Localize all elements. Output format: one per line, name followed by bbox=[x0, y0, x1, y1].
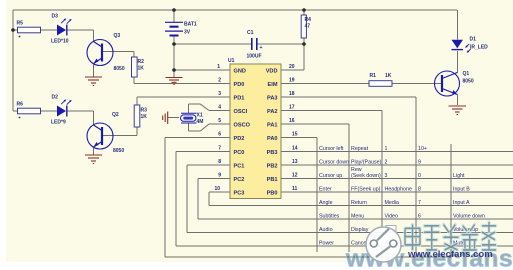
junction node BAT1 top bbox=[172, 8, 176, 12]
svg-text:Enter: Enter bbox=[319, 187, 332, 193]
svg-text:PD2: PD2 bbox=[234, 136, 245, 142]
wire Q2 base to R3 bbox=[103, 127, 137, 136]
svg-text:Q3: Q3 bbox=[114, 33, 121, 39]
svg-text:12: 12 bbox=[292, 173, 298, 179]
node key matrix labels row2 bbox=[319, 160, 421, 166]
wire OSCO pin5 to crystal bbox=[189, 124, 230, 131]
svg-text:LED*10: LED*10 bbox=[51, 39, 69, 45]
node key matrix labels row4 bbox=[319, 187, 470, 193]
wire PD2 pin6 wrap to column5 bbox=[165, 138, 451, 258]
svg-text:10+: 10+ bbox=[418, 146, 427, 152]
svg-text:3V: 3V bbox=[184, 30, 191, 36]
svg-text:1K: 1K bbox=[138, 66, 145, 72]
junction node R5-left bbox=[11, 28, 15, 32]
LED D1 bbox=[452, 37, 489, 53]
svg-text:1: 1 bbox=[217, 64, 220, 70]
wire battery top bbox=[173, 10, 175, 22]
svg-text:PB1: PB1 bbox=[267, 177, 278, 183]
svg-text:PC2: PC2 bbox=[234, 177, 245, 183]
wire PC1 pin8 wrap to row7 bbox=[187, 165, 513, 233]
watermark badge bbox=[366, 226, 401, 263]
wire Q3 emitter to ground bbox=[93, 64, 95, 77]
svg-text:Input B: Input B bbox=[453, 187, 470, 193]
svg-text:U1: U1 bbox=[228, 58, 235, 64]
svg-text:5: 5 bbox=[218, 118, 221, 124]
wire PD1 net bbox=[137, 97, 230, 105]
svg-text:Cursor up: Cursor up bbox=[319, 173, 342, 179]
svg-text:Video: Video bbox=[385, 214, 399, 220]
node key matrix labels row1 bbox=[319, 146, 427, 152]
ground under Q1 bbox=[449, 106, 467, 115]
svg-text:+: + bbox=[260, 45, 263, 51]
svg-text:13: 13 bbox=[292, 159, 298, 165]
svg-text:R4: R4 bbox=[305, 17, 312, 23]
svg-text:PA0: PA0 bbox=[267, 136, 277, 142]
svg-text:1K: 1K bbox=[141, 114, 148, 120]
transistor Q1 bbox=[435, 71, 474, 96]
svg-text:FF(Seek up): FF(Seek up) bbox=[351, 187, 381, 193]
wire PB0 pin11 row4 bbox=[281, 191, 513, 193]
wire Q2 emitter to ground bbox=[93, 148, 95, 155]
svg-text:9: 9 bbox=[418, 160, 421, 166]
svg-text:Input A: Input A bbox=[453, 200, 470, 206]
LED D2 bbox=[51, 95, 72, 126]
svg-text:7: 7 bbox=[218, 146, 221, 152]
svg-text:PB2: PB2 bbox=[267, 163, 278, 169]
wire PB1 pin12 row3 bbox=[281, 178, 513, 180]
wire PB3 pin14 row1 bbox=[281, 151, 513, 153]
wire R4 stubs bbox=[303, 10, 305, 44]
wire PD0 net bbox=[134, 77, 230, 84]
node key matrix labels row5 bbox=[319, 200, 470, 206]
svg-text:Volume down: Volume down bbox=[453, 214, 485, 220]
svg-text:20: 20 bbox=[289, 64, 295, 70]
svg-text:OSCI: OSCI bbox=[234, 109, 248, 115]
resistor R1 bbox=[369, 73, 392, 86]
svg-text:R5: R5 bbox=[17, 21, 24, 27]
svg-text:(Seek down): (Seek down) bbox=[351, 173, 381, 179]
svg-text:2: 2 bbox=[385, 160, 388, 166]
svg-text:18: 18 bbox=[289, 91, 295, 97]
svg-text:47: 47 bbox=[305, 24, 311, 30]
svg-text:Angle: Angle bbox=[319, 200, 333, 206]
svg-text:6: 6 bbox=[418, 214, 421, 220]
svg-text:8: 8 bbox=[418, 187, 421, 193]
wire crystal ground stub bbox=[168, 117, 179, 119]
svg-text:10: 10 bbox=[214, 186, 220, 192]
junction node GND rail bbox=[172, 68, 176, 72]
capacitor C1 bbox=[247, 30, 263, 60]
wire GND pin1 bbox=[174, 70, 230, 77]
ground under BAT1 bbox=[166, 78, 183, 85]
svg-text:PC3: PC3 bbox=[234, 190, 245, 196]
svg-text:Q2: Q2 bbox=[112, 112, 119, 118]
wire D1 to Q1 collector bbox=[456, 51, 458, 73]
svg-text:PD0: PD0 bbox=[234, 82, 245, 88]
svg-text:PA2: PA2 bbox=[267, 109, 277, 115]
svg-text:0: 0 bbox=[418, 173, 421, 179]
svg-text:4: 4 bbox=[218, 105, 221, 111]
svg-text:GND: GND bbox=[234, 68, 246, 74]
resistor R2 bbox=[132, 57, 145, 77]
wire PC2 pin9 wrap to row6 bbox=[198, 179, 513, 220]
svg-text:6: 6 bbox=[218, 132, 221, 138]
wire PA0 pin15 column1 bbox=[281, 138, 317, 253]
svg-text:16: 16 bbox=[289, 118, 295, 124]
svg-text:IR_LED: IR_LED bbox=[470, 45, 488, 51]
svg-text:D3: D3 bbox=[52, 14, 59, 20]
wire Q1 emitter to ground bbox=[456, 95, 458, 106]
svg-text:8050: 8050 bbox=[114, 66, 125, 72]
svg-text:Display: Display bbox=[351, 227, 369, 233]
svg-text:11: 11 bbox=[292, 186, 298, 192]
svg-text:D2: D2 bbox=[52, 95, 59, 101]
svg-text:4M: 4M bbox=[197, 119, 204, 125]
svg-text:PD1: PD1 bbox=[234, 95, 245, 101]
battery BAT1 bbox=[165, 22, 197, 36]
wire left rail bbox=[12, 10, 14, 111]
svg-text:X1: X1 bbox=[197, 113, 203, 119]
svg-text:Play/(Pause): Play/(Pause) bbox=[351, 160, 382, 166]
svg-text:Audio: Audio bbox=[319, 227, 333, 233]
resistor R4 bbox=[301, 15, 311, 38]
svg-text:Light: Light bbox=[453, 173, 465, 179]
wire R5 to D3 to Q3 bbox=[13, 30, 94, 41]
svg-text:9: 9 bbox=[218, 173, 221, 179]
svg-text:OSCO: OSCO bbox=[234, 122, 251, 128]
wire PA3 pin18 column4 bbox=[281, 97, 416, 252]
resistor R6 bbox=[17, 102, 41, 119]
wire top rail bbox=[13, 9, 457, 11]
wire VDD pin20 riser bbox=[281, 44, 304, 70]
svg-text:Q1: Q1 bbox=[463, 71, 470, 77]
ground under Q2 bbox=[85, 155, 102, 164]
svg-text:R2: R2 bbox=[138, 59, 145, 65]
svg-text:Subtitles: Subtitles bbox=[319, 214, 340, 220]
svg-text:Power: Power bbox=[319, 241, 334, 247]
svg-text:Media: Media bbox=[385, 200, 399, 206]
svg-text:14: 14 bbox=[292, 146, 298, 152]
svg-text:3: 3 bbox=[218, 91, 221, 97]
svg-text:8050: 8050 bbox=[463, 79, 474, 85]
svg-text:BAT1: BAT1 bbox=[184, 22, 197, 28]
svg-text:17: 17 bbox=[289, 105, 295, 111]
svg-text:D1: D1 bbox=[470, 37, 477, 43]
svg-text:PC0: PC0 bbox=[234, 150, 245, 156]
svg-text:Headphone: Headphone bbox=[385, 187, 412, 193]
wire OSCI pin4 to crystal bbox=[189, 104, 230, 113]
svg-text:Cursor left: Cursor left bbox=[319, 146, 344, 152]
svg-text:19: 19 bbox=[289, 78, 295, 84]
wire PA2 pin17 column3 bbox=[281, 111, 382, 253]
svg-text:LED*9: LED*9 bbox=[51, 120, 66, 126]
svg-text:PA3: PA3 bbox=[267, 95, 277, 101]
svg-text:Return: Return bbox=[351, 200, 367, 206]
wire PB2 pin13 row2 bbox=[281, 164, 513, 166]
wire D1 drop from top rail bbox=[456, 10, 458, 40]
svg-text:R6: R6 bbox=[17, 102, 24, 108]
resistor R5 bbox=[17, 21, 41, 38]
watermark brand glyphs core bbox=[405, 222, 496, 250]
svg-text:2: 2 bbox=[218, 78, 221, 84]
wire PA1 pin16 column2 bbox=[281, 124, 349, 252]
svg-text:1K: 1K bbox=[385, 73, 392, 79]
svg-text:www.elecfans.com: www.elecfans.com bbox=[407, 249, 493, 260]
crystal X1 bbox=[181, 113, 204, 126]
ground beside X1 bbox=[163, 112, 168, 125]
svg-text:Cursor down: Cursor down bbox=[319, 160, 349, 166]
node key matrix labels row7 bbox=[319, 227, 478, 233]
IC U1 body bbox=[228, 58, 281, 199]
watermark brand glyphs bbox=[405, 222, 496, 250]
wire PC3 pin10 wrap to row5 bbox=[209, 192, 513, 206]
LED D3 bbox=[51, 14, 72, 45]
svg-text:Repeat: Repeat bbox=[351, 146, 369, 152]
node key matrix labels row8 bbox=[319, 241, 465, 247]
resistor R3 bbox=[134, 105, 147, 127]
junction node R4 bottom bbox=[302, 42, 306, 46]
svg-text:PB3: PB3 bbox=[267, 150, 278, 156]
svg-text:PB0: PB0 bbox=[267, 190, 278, 196]
junction node BAT1 bottom bbox=[172, 42, 176, 46]
svg-text:1: 1 bbox=[385, 146, 388, 152]
svg-text:VDD: VDD bbox=[266, 68, 278, 74]
transistor Q3 bbox=[87, 33, 125, 72]
ground under Q3 bbox=[85, 77, 102, 86]
wire PC0 pin7 wrap to row8 bbox=[176, 152, 513, 247]
svg-text:3: 3 bbox=[385, 173, 388, 179]
junction node R4 top bbox=[302, 8, 306, 12]
node key matrix labels row6 bbox=[319, 214, 485, 220]
svg-text:15: 15 bbox=[292, 132, 298, 138]
wire EIM pin19 to R1 to Q1 base bbox=[281, 83, 442, 85]
svg-text:PA1: PA1 bbox=[267, 122, 277, 128]
wire Q3 base to R2 bbox=[103, 52, 134, 58]
svg-text:7: 7 bbox=[418, 200, 421, 206]
svg-text:R3: R3 bbox=[141, 108, 148, 114]
svg-text:8: 8 bbox=[218, 159, 221, 165]
wire C1 net bbox=[174, 43, 304, 45]
svg-text:8050: 8050 bbox=[113, 148, 124, 154]
node key matrix labels row3 bbox=[319, 167, 465, 179]
svg-text:100UF: 100UF bbox=[247, 54, 262, 60]
wire R6 to D2 to Q2 bbox=[13, 111, 94, 125]
svg-text:PC1: PC1 bbox=[234, 163, 245, 169]
wire battery bottom to ground junction bbox=[173, 36, 175, 70]
svg-text:R1: R1 bbox=[370, 73, 377, 79]
svg-text:Menu: Menu bbox=[351, 214, 364, 220]
svg-text:EIM: EIM bbox=[268, 82, 278, 88]
transistor Q2 bbox=[87, 112, 124, 154]
svg-text:C1: C1 bbox=[247, 30, 254, 36]
